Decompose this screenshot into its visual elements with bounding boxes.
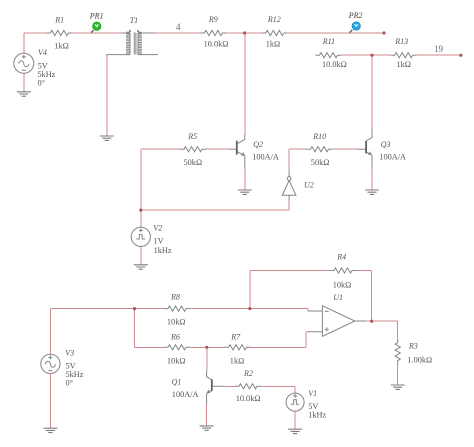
svg-text:10kΩ: 10kΩ — [167, 356, 186, 365]
svg-text:V1: V1 — [308, 389, 317, 398]
svg-text:10.0kΩ: 10.0kΩ — [204, 39, 229, 48]
svg-text:V3: V3 — [65, 349, 74, 358]
svg-text:1kHz: 1kHz — [308, 411, 326, 420]
svg-text:19: 19 — [434, 44, 444, 54]
svg-text:1.00kΩ: 1.00kΩ — [407, 356, 432, 365]
svg-text:0°: 0° — [38, 79, 45, 88]
svg-text:R4: R4 — [336, 252, 346, 261]
svg-text:R9: R9 — [208, 15, 218, 24]
svg-text:50kΩ: 50kΩ — [184, 158, 203, 167]
svg-text:50kΩ: 50kΩ — [311, 158, 330, 167]
svg-text:10.0kΩ: 10.0kΩ — [236, 394, 261, 403]
svg-text:10.0kΩ: 10.0kΩ — [322, 60, 347, 69]
svg-text:1kΩ: 1kΩ — [397, 60, 411, 69]
svg-text:U1: U1 — [333, 293, 343, 302]
svg-text:100A/A: 100A/A — [379, 153, 406, 162]
svg-text:V4: V4 — [38, 48, 47, 57]
svg-text:R8: R8 — [170, 293, 180, 302]
svg-text:U2: U2 — [304, 181, 314, 190]
svg-text:R2: R2 — [243, 369, 253, 378]
svg-text:Q3: Q3 — [381, 140, 391, 149]
svg-text:1kΩ: 1kΩ — [266, 39, 280, 48]
svg-text:PR1: PR1 — [89, 11, 104, 20]
svg-text:R5: R5 — [187, 132, 197, 141]
svg-text:0°: 0° — [66, 379, 73, 388]
svg-text:1V: 1V — [154, 237, 164, 246]
svg-text:R1: R1 — [54, 16, 64, 25]
svg-text:T1: T1 — [130, 16, 138, 25]
svg-text:4: 4 — [176, 22, 181, 32]
svg-text:10kΩ: 10kΩ — [167, 318, 186, 327]
svg-text:R12: R12 — [267, 15, 281, 24]
svg-text:1kHz: 1kHz — [154, 246, 172, 255]
svg-text:1kΩ: 1kΩ — [54, 41, 68, 50]
svg-text:R10: R10 — [312, 132, 326, 141]
svg-text:100A/A: 100A/A — [172, 390, 199, 399]
svg-text:R7: R7 — [230, 333, 241, 342]
svg-text:100A/A: 100A/A — [252, 153, 279, 162]
svg-text:Q2: Q2 — [253, 140, 263, 149]
svg-text:PR2: PR2 — [348, 11, 363, 20]
svg-text:1kΩ: 1kΩ — [230, 356, 244, 365]
svg-text:R3: R3 — [408, 342, 418, 351]
svg-text:Q1: Q1 — [172, 378, 182, 387]
svg-text:10kΩ: 10kΩ — [333, 280, 352, 289]
svg-text:R13: R13 — [394, 37, 408, 46]
svg-text:V2: V2 — [153, 224, 162, 233]
svg-text:R6: R6 — [170, 333, 180, 342]
svg-text:R11: R11 — [322, 37, 335, 46]
